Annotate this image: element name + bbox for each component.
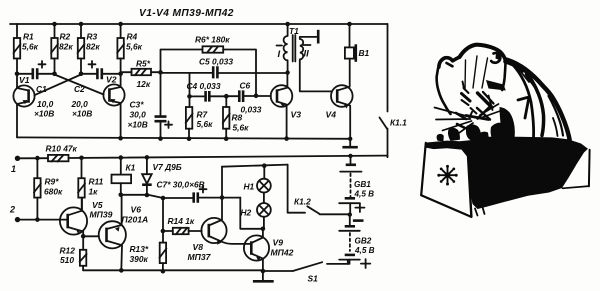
resistor R4	[117, 24, 143, 74]
kitten: box leg mark	[475, 207, 485, 216]
svg-text:5,6к: 5,6к	[126, 42, 143, 52]
svg-text:4,5 В: 4,5 В	[354, 246, 375, 255]
svg-text:R4: R4	[127, 32, 138, 42]
capacitor C5	[199, 57, 288, 79]
svg-text:V1: V1	[19, 75, 30, 85]
kitten: back fur streak	[513, 65, 534, 137]
svg-text:К1: К1	[126, 163, 136, 173]
transistor V1	[13, 74, 34, 138]
svg-text:V1-V4 МП39-МП42: V1-V4 МП39-МП42	[139, 8, 234, 19]
kitten illustration: box interior and rim	[426, 137, 589, 209]
svg-text:R10 47к: R10 47к	[46, 144, 78, 154]
resistor R9	[34, 158, 63, 219]
svg-text:×10В: ×10В	[128, 120, 148, 130]
resistor R5	[121, 59, 161, 90]
svg-text:П201А: П201А	[122, 215, 149, 225]
kitten: right eye upper	[483, 92, 494, 104]
svg-text:0,033: 0,033	[241, 105, 262, 115]
svg-text:2: 2	[9, 205, 15, 215]
wire: rail 2 right part	[69, 156, 388, 158]
svg-text:12к: 12к	[137, 79, 151, 89]
capacitor C7	[157, 180, 241, 203]
resistor R13	[130, 243, 167, 272]
capacitor C1	[17, 61, 55, 119]
svg-text:R2: R2	[60, 32, 71, 42]
svg-text:V5: V5	[92, 200, 103, 210]
svg-text:V7 Д9Б: V7 Д9Б	[153, 162, 182, 172]
contact K1.2	[288, 165, 350, 215]
svg-text:К1.2: К1.2	[294, 197, 311, 207]
svg-text:С6: С6	[240, 81, 251, 91]
relay coil K1	[112, 158, 136, 195]
wire: bottom rail	[83, 269, 263, 271]
svg-text:V2: V2	[106, 75, 117, 85]
svg-text:V9: V9	[273, 238, 284, 248]
junction dots lower section	[35, 163, 267, 273]
resistor R2	[51, 24, 73, 74]
svg-text:1: 1	[11, 164, 16, 174]
diode V7	[142, 157, 182, 195]
kitten: left muzzle marks	[456, 113, 466, 128]
chassis ground at V4 emitter	[342, 139, 357, 147]
junction dots top rail	[52, 22, 352, 27]
kitten: box right edge line	[588, 150, 591, 187]
wire: battery tap junction	[348, 212, 352, 216]
svg-text:С3*: С3*	[130, 100, 145, 110]
kitten: right eye outer	[489, 96, 493, 111]
svg-text:5,6к: 5,6к	[233, 123, 250, 133]
wire: emitter rail 1	[17, 137, 350, 138]
transformer T1 winding II	[300, 39, 311, 60]
svg-text:С4 0,033: С4 0,033	[187, 81, 221, 91]
transformer T1 winding I	[277, 24, 300, 73]
transistor V6	[83, 195, 148, 271]
wire: C7 node column to R13	[162, 198, 164, 243]
junction dots RC network	[187, 94, 258, 99]
kitten: left ear inner	[447, 63, 453, 66]
junction dots rail 2	[35, 154, 353, 161]
wire: rail 2 (terminal 1 rail) left part	[18, 157, 49, 159]
transistor V5	[60, 198, 113, 237]
kitten: right eye	[478, 93, 493, 108]
chassis ground at V9 emitter	[253, 271, 274, 281]
wire: C2 to V1 base cross coupling	[34, 75, 81, 96]
svg-text:R8: R8	[232, 113, 243, 123]
svg-text:30,0: 30,0	[130, 110, 147, 120]
kitten: crown outline	[460, 45, 495, 57]
svg-text:R3: R3	[87, 32, 98, 42]
wire: winding II top to phone terminal	[300, 37, 317, 39]
kitten: nose	[470, 108, 477, 118]
kitten: neck shadow	[506, 62, 523, 71]
svg-text:GB1: GB1	[354, 180, 371, 189]
kitten: right ear inner shade	[496, 53, 503, 61]
svg-text:II: II	[304, 49, 310, 60]
svg-text:R13*: R13*	[130, 244, 149, 254]
svg-text:МП37: МП37	[188, 252, 212, 262]
svg-text:R11: R11	[89, 177, 104, 187]
resistor R12	[60, 236, 87, 270]
terminal 1	[11, 156, 20, 174]
kitten: right paw on rim	[491, 123, 514, 144]
resistor R3	[78, 24, 101, 74]
kitten: left paw on rim	[448, 128, 460, 141]
wire: K1/V7 node to C7	[121, 195, 193, 198]
capacitor C6	[226, 81, 271, 115]
svg-text:82к: 82к	[59, 42, 73, 52]
transistor V3	[271, 73, 302, 139]
svg-text:Н2: Н2	[241, 208, 252, 218]
kitten: box bottom right edge	[563, 186, 589, 188]
wire: R5/R6 node to C5	[161, 72, 213, 74]
transformer T1 core	[293, 35, 296, 62]
svg-text:R12: R12	[60, 246, 76, 256]
svg-text:I: I	[278, 49, 281, 60]
transistor V8	[188, 218, 245, 262]
battery GB2	[339, 215, 374, 268]
phone terminal bar	[317, 30, 320, 44]
svg-text:МП39: МП39	[90, 210, 113, 220]
svg-text:R6* 180к: R6* 180к	[195, 35, 230, 45]
wire: winding II bottom to V4 base	[300, 59, 332, 91]
transistor V4	[326, 59, 353, 139]
resistor R11	[78, 158, 104, 211]
svg-text:680к: 680к	[44, 187, 63, 197]
kitten: haunch fur streak	[549, 96, 564, 136]
svg-text:R7: R7	[197, 110, 208, 120]
terminal 2	[9, 205, 20, 223]
kitten: mouth bar	[466, 116, 489, 120]
kitten: forehead streaks	[465, 56, 488, 90]
svg-text:R14 1к: R14 1к	[168, 216, 195, 226]
junction dots rail 1	[118, 136, 352, 141]
lamp H1	[244, 166, 271, 193]
svg-text:R1: R1	[23, 32, 34, 42]
svg-text:К1.1: К1.1	[390, 118, 407, 128]
kitten: box front-left corner edge	[468, 149, 472, 217]
svg-text:МП42: МП42	[271, 248, 294, 258]
junction dots coupling row	[15, 70, 290, 76]
svg-text:1к: 1к	[89, 187, 99, 197]
switch S1	[263, 260, 348, 284]
resistor R10	[46, 144, 78, 162]
resistor R14	[163, 216, 202, 234]
wire: V8 collector column	[221, 167, 223, 220]
wire: terminal 2 wire	[18, 219, 61, 221]
kitten: spine outline	[506, 60, 570, 142]
resistor R6	[161, 35, 257, 96]
wire: lamp feed line	[222, 165, 288, 167]
kitten: head right edge	[502, 62, 505, 91]
svg-text:В1: В1	[359, 48, 370, 58]
svg-text:×10В: ×10В	[34, 109, 54, 119]
svg-text:Н1: Н1	[244, 182, 255, 192]
kitten: box left face bottom edge	[421, 195, 471, 217]
wire: C4 branch from C5 line	[189, 73, 191, 97]
kitten: chin tuft	[466, 124, 481, 141]
wire: C1 to V2 base cross coupling	[55, 75, 104, 95]
kitten: small left paw mark	[437, 134, 444, 141]
transistor V2	[103, 74, 124, 138]
svg-text:5,6к: 5,6к	[22, 42, 39, 52]
svg-text:S1: S1	[308, 274, 319, 284]
kitten: right brow shadow	[486, 80, 506, 91]
svg-text:С7* 30,0×6В: С7* 30,0×6В	[157, 180, 205, 190]
capacitor C4	[187, 81, 227, 102]
svg-text:20,0: 20,0	[71, 99, 89, 109]
wire: top supply rail	[10, 23, 388, 25]
lamp H2	[241, 193, 271, 229]
kitten: foreleg dark mass	[500, 107, 515, 141]
kitten: snowflake on box	[437, 165, 457, 186]
kitten: shoulder fur streaks	[511, 63, 536, 89]
svg-text:V8: V8	[193, 242, 204, 252]
svg-text:390к: 390к	[130, 254, 149, 264]
kitten: haunch inner streak	[553, 118, 558, 136]
capacitor C2	[71, 61, 121, 119]
transistor V9	[244, 229, 294, 271]
kitten: left ear	[439, 57, 460, 67]
svg-text:Т1: Т1	[289, 26, 299, 36]
battery GB1	[339, 156, 374, 215]
svg-text:V4: V4	[326, 110, 337, 120]
kitten: box left face left edge	[421, 143, 426, 195]
contact K1.1	[380, 118, 408, 158]
kitten: left brow tick	[463, 82, 465, 89]
earphone B1	[345, 24, 370, 62]
kitten: left cheek	[437, 69, 451, 115]
resistor R8	[223, 96, 249, 139]
svg-text:R9*: R9*	[45, 177, 60, 187]
svg-text:V3: V3	[291, 110, 302, 120]
resistor R7	[186, 96, 214, 138]
svg-text:V6: V6	[131, 205, 142, 215]
wire: H2 bypass	[240, 198, 263, 229]
svg-text:С5 0,033: С5 0,033	[199, 57, 233, 67]
capacitor C3	[128, 72, 173, 138]
svg-text:4,5 В: 4,5 В	[354, 190, 375, 199]
kitten: right ear inner curl	[491, 53, 500, 63]
svg-text:510: 510	[60, 255, 74, 265]
kitten: whiskers	[435, 104, 501, 137]
wire: right vertical from top rail to K1.1	[387, 24, 389, 112]
kitten: foreleg angular mark	[518, 97, 529, 118]
resistor R1	[14, 24, 39, 74]
kitten: muzzle shadow between paws	[479, 132, 489, 143]
svg-text:GB2: GB2	[355, 237, 372, 246]
svg-text:×10В: ×10В	[72, 109, 92, 119]
kitten: left eye	[462, 94, 471, 102]
kitten: foreleg outer edge	[523, 68, 544, 136]
svg-text:5,6к: 5,6к	[197, 119, 214, 129]
kitten: left eye tick	[464, 88, 469, 93]
svg-text:R5*: R5*	[136, 59, 151, 69]
svg-text:10,0: 10,0	[37, 99, 54, 109]
svg-text:82к: 82к	[86, 42, 100, 52]
kitten: left eye lower	[462, 100, 469, 105]
kitten: right ear	[494, 48, 506, 61]
kitten: mouth cross strokes	[477, 107, 490, 120]
